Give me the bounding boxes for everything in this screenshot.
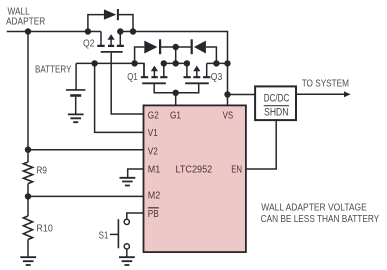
ground (battery) [68, 114, 84, 122]
wire Q3 diode anode to VS [206, 47, 216, 63]
transistor Q2 gate bar [101, 51, 123, 53]
PB overline [148, 207, 159, 209]
node gate link / G1 [173, 90, 179, 96]
wire wall adapter rail [7, 31, 101, 33]
svg-text:LTC2952: LTC2952 [176, 164, 213, 175]
svg-text:BATTERY: BATTERY [35, 64, 72, 76]
node common source/stem [173, 60, 179, 66]
wire R10 to ground [27, 240, 29, 258]
wire G2 pin (gate of Q2 down to IC) [111, 53, 143, 114]
svg-text:Q1: Q1 [127, 71, 138, 83]
svg-text:G2: G2 [148, 110, 159, 121]
node VS rail/source row [224, 60, 230, 66]
transistor Q1 body arrow stem [153, 70, 155, 76]
wire PB pin [127, 213, 144, 219]
arrow Q2 body [108, 34, 115, 40]
switch S1 contacts [124, 219, 129, 224]
wire EN to SHDN [246, 120, 276, 169]
DC/DC converter box [255, 86, 296, 120]
ground (bottom left) [20, 257, 36, 265]
wire DC/DC input [228, 94, 256, 96]
wire VS rail (Q2 source to VS) [120, 32, 227, 106]
node M2/R9/R10 [25, 193, 31, 199]
transistor Q2 legs [101, 32, 120, 46]
wire R9 to M2 node [27, 184, 29, 216]
wire V2 pin [28, 149, 144, 151]
svg-text:Q3: Q3 [211, 71, 223, 83]
svg-text:ADAPTER: ADAPTER [6, 16, 46, 28]
arrow Q3 body [193, 66, 200, 72]
switch S1 lever [117, 219, 119, 248]
wire Q2 body diode left [88, 15, 104, 32]
diode D2 (Q2 body diode) [104, 9, 116, 19]
wire common source row [164, 62, 187, 64]
svg-text:G1: G1 [170, 110, 181, 121]
wire battery to ground [75, 97, 77, 115]
wire diode common cathode link [161, 46, 192, 48]
wire battery stem [75, 63, 77, 90]
arrow Q1 body [151, 66, 158, 72]
SHDN overline [264, 105, 289, 107]
svg-text:R10: R10 [36, 222, 53, 234]
diode D3 (Q3 body diode) [194, 41, 206, 54]
wire gate link G1 [154, 83, 199, 93]
wire Q1 diode anode vertical [135, 47, 145, 63]
node Q3 drain/VS [213, 60, 219, 66]
battery cell plates [66, 89, 85, 91]
arrowhead TO SYSTEM [344, 91, 351, 97]
node battery/V1 [91, 60, 97, 66]
svg-text:PB: PB [148, 209, 159, 220]
svg-text:M2: M2 [148, 190, 161, 201]
wire switch to ground [126, 249, 128, 257]
svg-text:V1: V1 [148, 128, 158, 139]
svg-text:SHDN: SHDN [264, 107, 288, 119]
ground (M1) [120, 178, 136, 186]
wire left vertical from wall rail [27, 32, 29, 163]
resistor R10 [23, 216, 32, 240]
wire battery rail [76, 63, 144, 76]
diode D1 (Q1 body diode) [144, 41, 157, 54]
transistor Q3 body arrow stem [196, 70, 198, 76]
svg-text:V2: V2 [148, 147, 158, 158]
wire G1 pin stub [175, 93, 177, 106]
svg-text:DC/DC: DC/DC [264, 93, 290, 105]
node diode common cathode [173, 44, 179, 50]
transistor Q2 body arrow stem [110, 39, 112, 45]
svg-text:EN: EN [231, 165, 242, 176]
transistor Q1 gate bar [142, 82, 166, 84]
node Q2 source [117, 28, 123, 34]
node wall/left [25, 28, 31, 34]
svg-text:TO SYSTEM: TO SYSTEM [302, 77, 349, 89]
wire TO SYSTEM arrow line [296, 93, 345, 95]
node VS / DCDC input [224, 91, 230, 97]
transistor Q2 feet [97, 45, 124, 47]
ground (S1) [119, 257, 135, 265]
node Q1 source [161, 60, 167, 66]
svg-text:WALL ADAPTER VOLTAGE: WALL ADAPTER VOLTAGE [261, 201, 367, 213]
transistor Q3 gate bar [185, 82, 209, 84]
svg-text:M1: M1 [148, 165, 161, 176]
svg-text:R9: R9 [36, 164, 47, 176]
IC LTC2952 [144, 105, 246, 252]
svg-text:VS: VS [223, 110, 234, 121]
wire V1 pin [95, 63, 144, 132]
wire M2 pin [28, 195, 144, 197]
transistor Q3 legs [187, 63, 207, 76]
wire Q3 drain row to VS vertical [207, 62, 228, 64]
node battery/D1 anode [131, 60, 137, 66]
switch S1 tick [110, 233, 118, 235]
transistor Q1 legs [144, 63, 164, 76]
wire Q2 body diode right [118, 15, 133, 32]
node V2/R9 [25, 147, 31, 153]
node diode cathode/rail [130, 28, 136, 34]
node Q3 source [184, 60, 190, 66]
transistor Q1 feet [141, 76, 168, 78]
svg-text:CAN BE LESS THAN BATTERY: CAN BE LESS THAN BATTERY [261, 213, 380, 225]
node wall/diode anode [85, 28, 91, 34]
transistor Q3 feet [184, 76, 211, 78]
svg-text:S1: S1 [99, 230, 109, 242]
wire M1 to ground [128, 169, 144, 178]
resistor R9 [23, 162, 32, 184]
svg-text:Q2: Q2 [83, 38, 95, 50]
wire G1 stem from diodes to source row [175, 47, 177, 63]
